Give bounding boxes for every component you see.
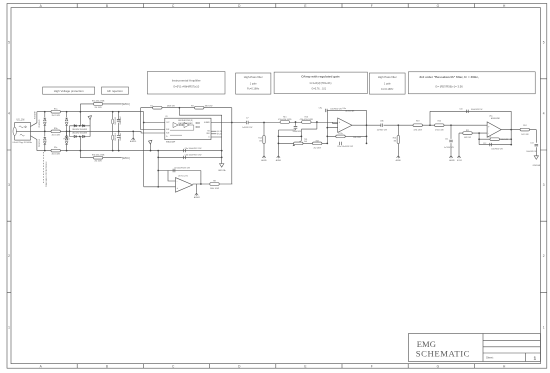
source sine 1 (19, 126, 23, 128)
junction (510, 138, 512, 140)
svg-text:470k 1/4W: 470k 1/4W (414, 130, 423, 132)
svg-text:EMG: EMG (417, 339, 436, 349)
junction (478, 138, 480, 140)
junction (132, 131, 134, 133)
svg-text:High Voltage protection: High Voltage protection (54, 89, 84, 93)
svg-text:2k6 1/4W: 2k6 1/4W (52, 115, 60, 117)
svg-text:5: 5 (8, 41, 10, 45)
U1 pin texts right (204, 121, 211, 139)
svg-text:AD8607AR: AD8607AR (346, 110, 355, 113)
svg-text:OAmp with regulated gain: OAmp with regulated gain (301, 75, 339, 79)
capacitor C10 (466, 110, 468, 113)
svg-text:R5c: R5c (54, 147, 57, 149)
resistor R24 (520, 128, 529, 131)
capacitor C6a (184, 149, 186, 152)
header box: OAmp with regulated gain (274, 72, 367, 93)
svg-text:R6b 46k+1MB: R6b 46k+1MB (92, 154, 105, 156)
junction (79, 125, 81, 127)
svg-text:AGND: AGND (396, 159, 402, 162)
junction (79, 136, 81, 138)
svg-text:PGND1: PGND1 (63, 139, 69, 141)
U3 upper input stub (168, 171, 176, 182)
junction (510, 129, 512, 131)
resistor R15 (280, 121, 289, 124)
capacitor C9a (325, 109, 327, 112)
svg-text:3: 3 (8, 183, 10, 187)
HF resistor vertical (112, 112, 114, 151)
svg-text:R1b: R1b (393, 137, 396, 139)
svg-text:C13: C13 (530, 142, 533, 144)
svg-text:1N4148W 1N4148W: 1N4148W 1N4148W (72, 129, 87, 131)
DRL feedback vertical (231, 123, 233, 185)
U4 output (352, 124, 381, 126)
U3 ground stub (196, 184, 198, 192)
ground AGND C11 (449, 155, 452, 159)
svg-text:5k6: 5k6 (304, 141, 307, 143)
junction (112, 111, 114, 113)
guard flag 2 stub (150, 144, 152, 150)
guard flag stub (89, 120, 91, 137)
feedback row C12 (479, 144, 511, 146)
svg-text:HF rejection: HF rejection (107, 89, 123, 93)
svg-text:R16: R16 (305, 116, 308, 118)
header box: High-Pass filter 1 (236, 73, 271, 94)
node R22 out (478, 132, 480, 134)
clamp mid-rail dot (69, 131, 71, 133)
source left electrode bump (13, 127, 16, 135)
header box: Instrumental Amplifier (147, 72, 225, 94)
svg-text:AGND1: AGND1 (194, 196, 200, 199)
junction (157, 157, 159, 159)
svg-text:2k6 1/4W: 2k6 1/4W (95, 161, 103, 163)
svg-text:ECG1: ECG1 (457, 160, 462, 162)
resistor R14 (263, 136, 265, 144)
wire source to top rail (31, 112, 37, 127)
svg-text:100nF/63V 1/W: 100nF/63V 1/W (471, 109, 483, 111)
svg-text:[9VDC]: [9VDC] (122, 103, 130, 106)
svg-text:1uF/63V 1/W: 1uF/63V 1/W (242, 127, 253, 129)
title block (409, 334, 541, 362)
svg-text:AGND: AGND (276, 159, 282, 162)
svg-text:4u7/63V 1/W: 4u7/63V 1/W (444, 147, 454, 149)
R22 row (459, 132, 487, 134)
svg-text:100k 1/4W: 100k 1/4W (501, 139, 509, 141)
svg-text:High Pass filter: High Pass filter (378, 75, 397, 79)
svg-text:G= (R57/R56)+1= 3.56: G= (R57/R56)+1= 3.56 (435, 85, 463, 89)
svg-text:U3 TLC271: U3 TLC271 (178, 176, 188, 178)
mid rail ground stub (66, 131, 68, 134)
series capacitor C9b (381, 124, 383, 127)
svg-text:E: E (304, 365, 306, 369)
wiper row (278, 122, 317, 141)
svg-text:1: 1 (543, 325, 545, 329)
junction (231, 122, 233, 124)
node R15-R16 (295, 121, 297, 123)
svg-text:2k6 1/4W: 2k6 1/4W (52, 135, 60, 137)
svg-text:100nF/63V 1/W: 100nF/63V 1/W (491, 148, 503, 150)
ground arrow GND2A (534, 156, 538, 160)
svg-text:100nF/63V 1/W: 100nF/63V 1/W (526, 151, 537, 153)
svg-text:1N4148W 1N4148W: 1N4148W 1N4148W (72, 132, 87, 134)
guard flag (88, 116, 91, 120)
wire source to bottom rail (31, 136, 37, 151)
ground symbol AGND1 (132, 137, 135, 141)
clamp diode row top (70, 125, 91, 127)
supply rail bottom (80, 157, 121, 159)
junction (157, 170, 159, 172)
svg-text:0.8mV/1Vpp 20-500Hz: 0.8mV/1Vpp 20-500Hz (13, 142, 33, 144)
svg-text:470k+620k 1/4W5: 470k+620k 1/4W5 (300, 119, 313, 121)
C11 branch (450, 125, 452, 154)
cap row 2 wire (158, 156, 222, 158)
svg-text:R18: R18 (316, 140, 319, 142)
frame left ticks (7, 79, 11, 293)
svg-text:100nF/63V 1/W: 100nF/63V 1/W (330, 108, 342, 110)
svg-text:⟨R-16: ⟨R-16 (217, 133, 222, 136)
U4 output vertical (366, 110, 368, 143)
svg-text:Fc=0.16Hz: Fc=0.16Hz (381, 88, 394, 91)
node dots rails column1 (44, 111, 46, 113)
junction (143, 122, 145, 124)
C8 right vertical to output (200, 171, 202, 184)
wire top rail (37, 111, 144, 113)
capacitor C10a (340, 142, 342, 145)
resistor R18 (313, 142, 322, 145)
svg-text:G=5,76... 101: G=5,76... 101 (312, 88, 327, 91)
source sine 1 node (25, 126, 27, 128)
svg-text:R6a 46k+1MB: R6a 46k+1MB (92, 101, 105, 103)
resistor R5c (51, 149, 60, 152)
TVS column 2 top pair (65, 118, 68, 121)
frame row numbers left (8, 41, 10, 330)
R22 ground branch (458, 133, 460, 154)
svg-text:US_1M: US_1M (17, 120, 25, 122)
svg-text:GND2A: GND2A (533, 164, 541, 167)
R14 branch (263, 123, 265, 155)
svg-text:1M: 1M (259, 141, 262, 143)
svg-text:3: 3 (543, 183, 545, 187)
svg-text:PESD5V0: PESD5V0 (39, 120, 41, 128)
svg-text:[9VDC]: [9VDC] (122, 157, 130, 160)
svg-text:100nF 3kV: 100nF 3kV (120, 132, 122, 141)
op-amp U5 (487, 122, 501, 137)
svg-text:INA118AP: INA118AP (166, 141, 176, 144)
feedback resistor row (327, 135, 366, 137)
capacitor C13 (535, 144, 539, 146)
svg-text:High-Pass filter: High-Pass filter (244, 75, 263, 79)
INA output rail (211, 122, 338, 124)
svg-text:10M 1/4W: 10M 1/4W (115, 117, 117, 125)
U1 pin texts left (166, 122, 170, 138)
svg-text:1 pole: 1 pole (250, 82, 257, 85)
ground AGND pot (277, 155, 280, 159)
source sine 2 (20, 134, 24, 136)
svg-text:OUT: OUT (166, 122, 169, 124)
clamp left vertical (69, 126, 71, 137)
svg-text:470k+620k 1/4W5: 470k+620k 1/4W5 (278, 119, 291, 121)
svg-text:B: B (106, 365, 108, 369)
svg-text:R23: R23 (488, 137, 491, 139)
capacitor Cdiv (294, 127, 298, 129)
cap C-div branch (278, 122, 295, 155)
vertical to U3 loop (157, 151, 159, 187)
wire mid rail (31, 130, 142, 132)
svg-text:R9: R9 (191, 105, 193, 107)
capacitor C4a (117, 120, 121, 122)
mid rail ground symbol PGND (65, 134, 68, 138)
dashed shield line (43, 152, 45, 183)
node C11 tap (450, 124, 452, 126)
ground AGND R22 (457, 155, 460, 159)
U3 lower input wire (144, 186, 176, 188)
svg-text:4k99 1/W: 4k99 1/W (464, 137, 471, 139)
resistor R5a (51, 110, 60, 113)
svg-text:E: E (304, 4, 306, 8)
svg-text:C10: C10 (459, 108, 462, 110)
clamp column rail dots (80, 111, 82, 113)
ground arrow GND1A (221, 151, 223, 164)
resistor R6a (93, 103, 102, 106)
node dots rails column2 (66, 111, 68, 113)
svg-text:R22: R22 (466, 130, 469, 132)
svg-text:2k2 1/4W: 2k2 1/4W (313, 148, 321, 150)
U3 plus minus (177, 180, 179, 190)
svg-text:AGND: AGND (261, 159, 267, 162)
capacitor C6b (184, 156, 186, 159)
gain rail center tap guard trace (179, 108, 221, 123)
svg-text:R20: R20 (438, 121, 441, 123)
svg-text:F: F (371, 365, 373, 369)
feedback row R23 (479, 138, 511, 140)
node R18 out (326, 143, 328, 145)
svg-text:AD8607AR: AD8607AR (491, 117, 500, 120)
resistor R16 (302, 121, 311, 124)
svg-text:Sheet :: Sheet : (486, 355, 494, 359)
TVS column 2 bottom pair (65, 137, 68, 140)
svg-text:BURR-BROWN (R): BURR-BROWN (R) (178, 120, 193, 122)
svg-text:SCHEMATIC: SCHEMATIC (416, 349, 470, 359)
svg-text:2: 2 (8, 254, 10, 258)
frame row numbers right (543, 41, 545, 330)
svg-text:G=5*(1+49k4/R57)x10: G=5*(1+49k4/R57)x10 (173, 85, 200, 89)
svg-text:PGNDSH: PGNDSH (34, 110, 36, 119)
svg-text:1uF/63V 1/W: 1uF/63V 1/W (377, 130, 388, 132)
node R21 (397, 124, 399, 126)
svg-text:100k 1/4W: 100k 1/4W (353, 137, 361, 139)
junction (366, 136, 368, 138)
U1 internal amp B (184, 122, 189, 127)
svg-text:Fc=0.16Hz: Fc=0.16Hz (247, 87, 260, 90)
svg-text:C12: C12 (483, 143, 486, 145)
U5 output vertical (510, 111, 512, 144)
svg-text:1k5 1/4W: 1k5 1/4W (521, 134, 529, 136)
resistor R17a (336, 135, 345, 138)
header box: HF rejection (102, 87, 129, 94)
output rail to filter (384, 124, 488, 126)
frame right ticks (540, 79, 546, 293)
U4 plus input jog (333, 122, 338, 123)
wire bottom rail (37, 150, 222, 152)
R21 branch (397, 125, 399, 154)
junction (366, 124, 368, 126)
capacitor C7 (246, 121, 248, 124)
U3 output wire (193, 183, 233, 185)
capacitor C4b (117, 136, 121, 138)
U1 V- wire (211, 122, 222, 150)
resistor R20 (435, 124, 444, 127)
svg-text:GND1A: GND1A (218, 169, 226, 172)
guard flag 2 (149, 140, 152, 144)
svg-text:100nF 3kV: 100nF 3kV (120, 116, 122, 125)
frame bottom ticks (77, 364, 474, 369)
ground AGND R14 (262, 155, 265, 159)
wiper arrow (294, 141, 301, 146)
svg-text:⟨G-15: ⟨G-15 (217, 130, 222, 133)
supply rail top (80, 103, 121, 105)
HF cap branch vertical (118, 112, 120, 151)
svg-text:C6b 100nF/63V 1/W: C6b 100nF/63V 1/W (185, 155, 202, 157)
svg-text:1M: 1M (394, 141, 397, 143)
U1 right pin stub GUARD (211, 130, 216, 132)
resistor R19 (413, 124, 422, 127)
svg-text:4: 4 (8, 112, 10, 116)
svg-text:R5b: R5b (54, 128, 58, 130)
INA gain rail top (141, 108, 232, 123)
resistor R5b (51, 130, 60, 133)
svg-text:49k9 1/W: 49k9 1/W (167, 105, 175, 107)
capacitor C12 (490, 143, 492, 146)
resistor R7 (153, 106, 162, 109)
TVS column 1 top pair (44, 118, 47, 121)
svg-text:R15: R15 (283, 116, 286, 118)
svg-text:V+: V+ (166, 136, 168, 138)
resistor R22 (463, 132, 472, 135)
svg-text:C9b: C9b (380, 120, 384, 122)
inverting bus U4 (327, 110, 337, 143)
source box (15, 123, 31, 141)
op-amp U3 (176, 178, 193, 193)
frame top ticks (77, 4, 474, 8)
node after R16 (316, 121, 318, 123)
svg-text:R24: R24 (523, 125, 526, 127)
svg-text:49k9 1/W: 49k9 1/W (205, 105, 213, 107)
svg-text:2k6 1/4W: 2k6 1/4W (52, 154, 60, 156)
resistor R9 (195, 106, 204, 109)
clamp diode row bottom (70, 136, 91, 138)
inverting bus U5 (478, 133, 480, 145)
header box: Besselworth filter (408, 72, 535, 94)
svg-text:G=1+R(2)/(TR1+R1): G=1+R(2)/(TR1+R1) (310, 82, 332, 85)
svg-text:PGND SHIELD PROTECTION 0V: PGND SHIELD PROTECTION 0V (46, 161, 48, 187)
C9a feedback top row (327, 109, 366, 111)
frame column letters bottom (40, 365, 506, 369)
svg-text:100k 1/4W: 100k 1/4W (210, 188, 219, 190)
svg-text:470k 1/4W: 470k 1/4W (435, 130, 444, 132)
op-amp U1 INA118 body (165, 118, 211, 139)
svg-text:U1: U1 (165, 116, 167, 118)
svg-text:2: 2 (543, 254, 545, 258)
svg-text:R7: R7 (150, 105, 152, 107)
U4 plus minus (339, 121, 341, 131)
node C10 tap (429, 124, 431, 126)
U1 internal amp A (173, 122, 178, 127)
op-amp U4 (338, 118, 352, 132)
svg-text:AGND1: AGND1 (130, 140, 136, 143)
svg-text:100nF/63V: 100nF/63V (293, 131, 302, 133)
junction (326, 136, 328, 138)
resistor R21 (397, 136, 399, 144)
bus to INA vertical (143, 112, 145, 187)
C8 feedback row (158, 170, 201, 172)
gain rail left drop (141, 108, 165, 130)
svg-text:1 pole: 1 pole (384, 82, 391, 85)
svg-text:1: 1 (8, 325, 10, 329)
ground AGND R21 (397, 155, 400, 159)
junction (200, 183, 202, 185)
frame column letters top (40, 4, 506, 8)
wire mid rail corner to INA pin3 (141, 131, 165, 133)
svg-text:C11: C11 (445, 138, 448, 140)
wire bus to INA pin1 (144, 122, 165, 124)
capacitor C8 (173, 169, 175, 172)
C13 branch (535, 130, 537, 156)
svg-text:F: F (371, 4, 373, 8)
dots on left branch (278, 135, 280, 137)
svg-text:C8 100nF/63V 1/W: C8 100nF/63V 1/W (174, 168, 190, 170)
node after C7 (263, 122, 265, 124)
svg-text:C6a 100nF/63V 1/W: C6a 100nF/63V 1/W (185, 148, 202, 150)
TVS column 1 bottom pair (44, 137, 47, 140)
svg-text:PESD5V0: PESD5V0 (39, 139, 41, 147)
U1 internal links (170, 125, 194, 135)
svg-text:Instrumental Amplifier: Instrumental Amplifier (172, 79, 201, 83)
header box: High Pass filter 2 (369, 73, 405, 94)
junction (179, 107, 181, 109)
HF branch dots (118, 111, 120, 113)
resistor R23 (490, 138, 499, 141)
svg-text:AGND: AGND (449, 159, 455, 162)
svg-text:C10a 100nF/63V 1/W: C10a 100nF/63V 1/W (337, 146, 353, 148)
resistor R8 (210, 183, 219, 186)
clamp column verticals (79, 104, 81, 158)
ground stub AGND1 mid rail (132, 131, 134, 136)
svg-text:B: B (106, 4, 108, 8)
svg-text:R8: R8 (213, 180, 215, 182)
svg-text:R14: R14 (258, 137, 261, 139)
svg-text:R19: R19 (416, 121, 419, 123)
capacitor C11 (449, 140, 453, 142)
resistor R6b (93, 156, 102, 159)
U5 output (501, 129, 536, 131)
source box divider (15, 131, 31, 133)
svg-text:5: 5 (543, 41, 545, 45)
svg-text:3rd order "Besselworth" filter: 3rd order "Besselworth" filter, fc = 40H… (419, 75, 478, 79)
junction (150, 150, 152, 152)
pot row (278, 142, 327, 144)
svg-text:4: 4 (543, 112, 545, 116)
svg-text:REF: REF (207, 133, 210, 135)
junction (157, 150, 159, 152)
junction (157, 186, 159, 188)
U1 right pin stub REF (211, 133, 216, 135)
svg-text:2k6 1/4W: 2k6 1/4W (95, 107, 103, 109)
junction (301, 136, 303, 138)
svg-text:10M 1/4W: 10M 1/4W (115, 133, 117, 141)
header box: High Voltage protection (43, 87, 95, 94)
C10 top row (430, 111, 511, 125)
potentiometer TR1 (294, 142, 303, 145)
U5 plus minus (488, 125, 490, 135)
